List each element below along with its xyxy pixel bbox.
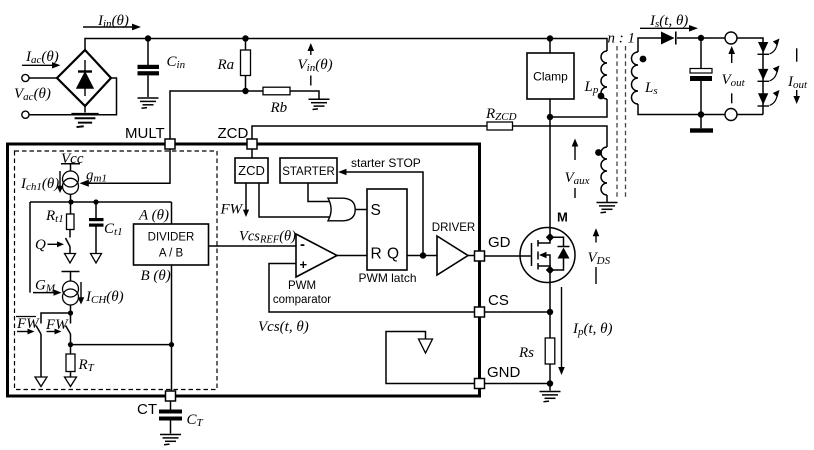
svg-text:n : 1: n : 1 bbox=[608, 31, 636, 47]
svg-text:FW: FW bbox=[45, 317, 69, 333]
svg-text:Rs: Rs bbox=[518, 345, 534, 361]
svg-text:M: M bbox=[557, 210, 568, 225]
svg-text:PWM: PWM bbox=[288, 280, 316, 292]
svg-text:DRIVER: DRIVER bbox=[432, 222, 475, 234]
svg-text:starter STOP: starter STOP bbox=[351, 156, 421, 170]
svg-text:B (θ): B (θ) bbox=[141, 268, 171, 284]
svg-text:STARTER: STARTER bbox=[282, 166, 335, 178]
svg-text:FW: FW bbox=[220, 202, 244, 218]
svg-text:comparator: comparator bbox=[273, 294, 331, 306]
svg-text:S: S bbox=[371, 202, 381, 219]
svg-text:A (θ): A (θ) bbox=[138, 208, 169, 224]
svg-text:GND: GND bbox=[487, 364, 521, 381]
svg-text:GD: GD bbox=[488, 234, 511, 251]
svg-text:PWM latch: PWM latch bbox=[358, 271, 416, 285]
svg-text:CT: CT bbox=[137, 401, 157, 418]
svg-text:Iac(θ): Iac(θ) bbox=[25, 49, 59, 66]
svg-text:R: R bbox=[371, 246, 382, 263]
svg-text:Vcc: Vcc bbox=[61, 151, 84, 167]
svg-text:Q: Q bbox=[387, 246, 399, 263]
svg-text:Q: Q bbox=[35, 237, 46, 253]
svg-text:Ra: Ra bbox=[217, 57, 235, 73]
svg-text:ZCD: ZCD bbox=[218, 125, 249, 142]
svg-text:Is(t, θ): Is(t, θ) bbox=[649, 13, 688, 30]
svg-text:A / B: A / B bbox=[159, 248, 184, 260]
svg-text:Rb: Rb bbox=[270, 100, 288, 116]
svg-text:-: - bbox=[300, 236, 305, 253]
svg-text:CS: CS bbox=[488, 292, 509, 309]
svg-text:FW: FW bbox=[16, 316, 40, 332]
svg-text:MULT: MULT bbox=[125, 125, 165, 142]
svg-text:Iin(θ): Iin(θ) bbox=[97, 13, 129, 30]
svg-text:Vin(θ): Vin(θ) bbox=[298, 57, 333, 74]
svg-text:DIVIDER: DIVIDER bbox=[148, 232, 195, 244]
svg-text:Clamp: Clamp bbox=[533, 70, 568, 84]
svg-text:Vcs(t, θ): Vcs(t, θ) bbox=[258, 319, 309, 335]
svg-text:+: + bbox=[300, 257, 308, 272]
svg-text:ZCD: ZCD bbox=[238, 163, 265, 178]
